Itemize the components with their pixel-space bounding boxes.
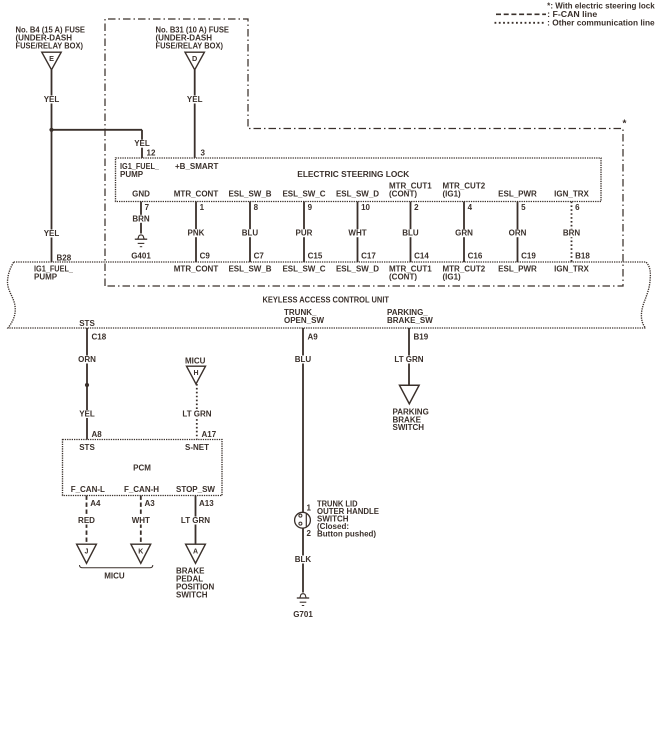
svg-text:A3: A3 [145, 499, 156, 508]
svg-text:C14: C14 [414, 251, 429, 260]
svg-text:ESL_PWR: ESL_PWR [498, 190, 537, 199]
svg-text:ORN: ORN [509, 229, 527, 238]
svg-text:MICU: MICU [185, 357, 206, 366]
svg-text:BRAKE_SW: BRAKE_SW [387, 316, 433, 325]
svg-text:G701: G701 [293, 610, 313, 619]
svg-text:C7: C7 [254, 251, 265, 260]
svg-text:GRN: GRN [455, 229, 473, 238]
svg-text:(IG1): (IG1) [443, 272, 462, 281]
svg-text:PNK: PNK [188, 229, 205, 238]
svg-text:8: 8 [254, 203, 259, 212]
svg-text:SWITCH: SWITCH [393, 423, 425, 432]
svg-text:S-NET: S-NET [185, 443, 209, 452]
svg-text:12: 12 [147, 148, 156, 157]
svg-text:7: 7 [145, 203, 150, 212]
svg-text:ESL_SW_D: ESL_SW_D [336, 264, 379, 273]
svg-text:A13: A13 [199, 499, 214, 508]
svg-text:BLU: BLU [402, 229, 419, 238]
svg-text:J: J [85, 549, 89, 556]
svg-text:YEL: YEL [187, 95, 203, 104]
svg-text:SWITCH: SWITCH [176, 591, 208, 600]
svg-text:STS: STS [79, 319, 95, 328]
svg-text:BLU: BLU [242, 229, 259, 238]
svg-text:D: D [192, 54, 197, 63]
svg-text:YEL: YEL [134, 139, 150, 148]
svg-text:F_CAN-L: F_CAN-L [71, 485, 105, 494]
svg-text:10: 10 [361, 203, 370, 212]
svg-text:MTR_CONT: MTR_CONT [174, 190, 219, 199]
svg-text:A17: A17 [202, 430, 217, 439]
svg-text:MICU: MICU [104, 572, 125, 581]
svg-text:OPEN_SW: OPEN_SW [284, 316, 324, 325]
svg-text:PUR: PUR [296, 229, 313, 238]
svg-text:1: 1 [200, 203, 205, 212]
svg-text:G401: G401 [131, 251, 151, 260]
svg-text:IGN_TRX: IGN_TRX [554, 264, 589, 273]
svg-text:KEYLESS ACCESS CONTROL UNIT: KEYLESS ACCESS CONTROL UNIT [263, 295, 390, 304]
svg-text:5: 5 [521, 203, 526, 212]
svg-text:ESL_SW_B: ESL_SW_B [228, 264, 271, 273]
svg-text:+B_SMART: +B_SMART [175, 162, 218, 171]
svg-text:C19: C19 [521, 251, 536, 260]
svg-text:PUMP: PUMP [120, 170, 144, 179]
svg-text:C17: C17 [361, 251, 376, 260]
svg-text:LT GRN: LT GRN [394, 355, 423, 364]
svg-text:(CONT): (CONT) [389, 190, 417, 199]
svg-text:YEL: YEL [44, 229, 60, 238]
svg-text:FUSE/RELAY BOX): FUSE/RELAY BOX) [156, 41, 224, 50]
svg-text:(CONT): (CONT) [389, 272, 417, 281]
svg-text:ESL_PWR: ESL_PWR [498, 264, 537, 273]
svg-text:: Other communication line: : Other communication line [547, 19, 655, 28]
svg-text:B18: B18 [575, 251, 590, 260]
svg-text:WHT: WHT [132, 516, 150, 525]
svg-text:K: K [138, 549, 143, 556]
svg-text:MTR_CONT: MTR_CONT [174, 264, 219, 273]
svg-text:YEL: YEL [44, 95, 60, 104]
svg-text:GND: GND [132, 190, 150, 199]
svg-text:ESL_SW_C: ESL_SW_C [282, 264, 325, 273]
svg-text:ELECTRIC STEERING LOCK: ELECTRIC STEERING LOCK [297, 170, 409, 179]
svg-text:C16: C16 [468, 251, 483, 260]
svg-text:BRN: BRN [563, 229, 581, 238]
svg-text:B28: B28 [57, 253, 72, 262]
svg-text:2: 2 [307, 529, 312, 538]
svg-text:(IG1): (IG1) [443, 190, 462, 199]
svg-text:9: 9 [308, 203, 313, 212]
svg-text:3: 3 [201, 148, 206, 157]
svg-text:4: 4 [468, 203, 473, 212]
svg-text:6: 6 [575, 203, 580, 212]
svg-text:RED: RED [78, 516, 95, 525]
svg-text:1: 1 [307, 504, 312, 513]
svg-text:STOP_SW: STOP_SW [176, 485, 215, 494]
svg-text:C9: C9 [200, 251, 211, 260]
svg-text:*: With electric steering lock: *: With electric steering lock [547, 2, 655, 11]
svg-text:BLK: BLK [295, 555, 312, 564]
svg-text:A4: A4 [90, 499, 101, 508]
svg-text:LT GRN: LT GRN [181, 516, 210, 525]
svg-text:STS: STS [79, 443, 95, 452]
svg-text:ORN: ORN [78, 355, 96, 364]
svg-text:ESL_SW_D: ESL_SW_D [336, 190, 379, 199]
svg-text:C18: C18 [92, 332, 107, 341]
svg-text:2: 2 [414, 203, 419, 212]
svg-text:BRN: BRN [132, 214, 150, 223]
svg-text:FUSE/RELAY BOX): FUSE/RELAY BOX) [16, 41, 84, 50]
svg-text:Button pushed): Button pushed) [317, 529, 376, 538]
svg-text:YEL: YEL [79, 410, 95, 419]
svg-text:A8: A8 [92, 430, 103, 439]
svg-text:A9: A9 [308, 332, 319, 341]
svg-text:H: H [193, 370, 198, 377]
svg-text:LT GRN: LT GRN [182, 410, 211, 419]
svg-text:*: * [623, 119, 627, 130]
svg-text:A: A [193, 549, 198, 556]
svg-text:F_CAN-H: F_CAN-H [124, 485, 159, 494]
svg-text:IGN_TRX: IGN_TRX [554, 190, 589, 199]
svg-text:ESL_SW_C: ESL_SW_C [282, 190, 325, 199]
svg-text:PCM: PCM [133, 464, 151, 473]
svg-text:PUMP: PUMP [34, 272, 58, 281]
svg-text:ESL_SW_B: ESL_SW_B [228, 190, 271, 199]
svg-text:WHT: WHT [348, 229, 366, 238]
svg-text:E: E [49, 54, 54, 63]
svg-text:BLU: BLU [295, 355, 312, 364]
svg-text:C15: C15 [308, 251, 323, 260]
svg-text:B19: B19 [414, 332, 429, 341]
